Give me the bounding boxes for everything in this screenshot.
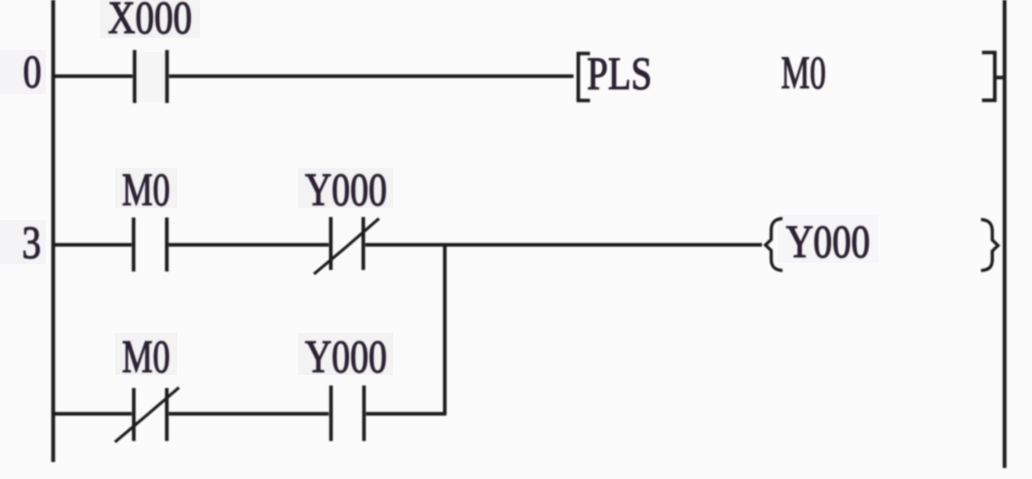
svg-text:3: 3: [22, 217, 41, 269]
svg-text:0: 0: [23, 46, 42, 98]
svg-text:X000: X000: [108, 0, 192, 44]
svg-text:PLS: PLS: [587, 48, 652, 100]
svg-text:M0: M0: [122, 331, 170, 383]
svg-text:Y000: Y000: [786, 216, 870, 268]
svg-text:M0: M0: [781, 47, 826, 99]
svg-text:Y000: Y000: [305, 164, 387, 216]
svg-text:Y000: Y000: [305, 331, 387, 383]
svg-text:M0: M0: [122, 164, 170, 216]
